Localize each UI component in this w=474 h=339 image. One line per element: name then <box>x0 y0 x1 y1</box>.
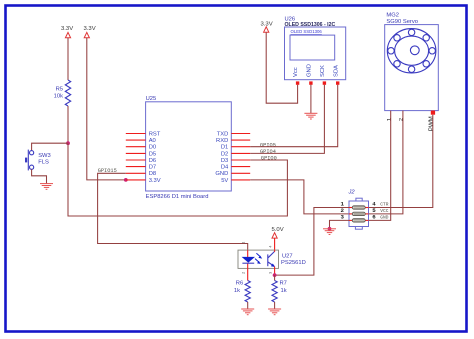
svg-text:SG90 Servo: SG90 Servo <box>386 19 418 25</box>
node junction opto emitter / R7 / J2 pin1 <box>273 273 277 277</box>
svg-text:GPIO15: GPIO15 <box>98 168 117 174</box>
servo MG2 SG90 <box>385 12 439 131</box>
svg-text:3: 3 <box>341 214 345 221</box>
svg-text:PWM: PWM <box>428 116 435 131</box>
svg-text:D5: D5 <box>149 151 156 157</box>
U25 left pin stubs RST A0 D0 D5 D6 D7 D8 3.3V <box>126 134 146 180</box>
svg-text:D6: D6 <box>149 158 156 164</box>
power symbol 3.3V (OLED) <box>261 21 273 32</box>
resistor R5 <box>54 80 71 106</box>
wire net GPIO5 D1 to OLED SDA <box>250 85 338 147</box>
ground (R6) <box>241 309 254 315</box>
svg-text:RST: RST <box>149 131 161 137</box>
svg-text:U25: U25 <box>146 96 157 102</box>
svg-text:1: 1 <box>385 117 392 121</box>
wire R7 to ground <box>274 302 276 309</box>
svg-text:1: 1 <box>242 242 246 244</box>
svg-text:1k: 1k <box>234 288 240 294</box>
node junction 3.3V pin <box>124 178 128 182</box>
svg-text:MG2: MG2 <box>386 12 399 18</box>
svg-text:3.3V: 3.3V <box>61 26 73 32</box>
wire R5 to junction <box>67 106 69 143</box>
svg-text:Vcc: Vcc <box>293 67 299 77</box>
svg-text:3: 3 <box>268 272 272 274</box>
wire net GPIO0 SW3 junction to U25 D3 <box>68 143 287 216</box>
svg-text:SDA: SDA <box>333 65 339 77</box>
wire servo PWM to J2 CTR row <box>369 115 433 208</box>
svg-text:A0: A0 <box>149 138 156 144</box>
svg-text:GPIO4: GPIO4 <box>260 149 276 155</box>
svg-text:5V: 5V <box>221 178 228 184</box>
wire net 5V U25 to J2 pin 2 <box>250 180 349 214</box>
svg-text:D1: D1 <box>221 145 228 151</box>
svg-text:R5: R5 <box>56 86 63 92</box>
svg-text:2: 2 <box>242 272 246 274</box>
wire opto cathode to R6 <box>247 268 249 280</box>
svg-text:D4: D4 <box>221 165 229 171</box>
svg-text:SW3: SW3 <box>38 153 51 159</box>
svg-text:1k: 1k <box>281 288 287 294</box>
svg-text:RXD: RXD <box>216 138 228 144</box>
svg-text:D3: D3 <box>221 158 228 164</box>
svg-text:5.0V: 5.0V <box>272 227 284 233</box>
svg-text:GND: GND <box>307 64 313 77</box>
node junction R5/SW3/GPIO0 <box>66 141 70 145</box>
svg-text:R6: R6 <box>236 281 243 287</box>
svg-text:CTR: CTR <box>380 201 388 207</box>
wire SW3 to ground <box>32 169 47 183</box>
ground (SW3) <box>40 184 53 190</box>
U25 right pin stubs TXD RXD D1 D2 D3 D4 GND 5V <box>231 134 250 180</box>
wire servo pin1 to J2 GND row <box>369 111 391 221</box>
wire junction to SW3 <box>32 143 68 150</box>
wire J2 pin1 to opto emitter <box>275 208 349 276</box>
svg-text:FLS: FLS <box>38 160 49 166</box>
svg-text:10k: 10k <box>54 94 63 100</box>
svg-text:3.3V: 3.3V <box>149 178 161 184</box>
wire 3.3V to R5 <box>67 38 69 80</box>
svg-text:4: 4 <box>268 246 272 248</box>
wire R7 top from emitter junction <box>274 275 276 280</box>
svg-text:GND: GND <box>380 214 388 220</box>
wire OLED GND to ground <box>310 85 312 114</box>
ground (J2 pin3) <box>323 229 336 235</box>
wire 3.3V to OLED Vcc <box>266 32 297 103</box>
connector J2 <box>341 190 389 230</box>
IC U25 ESP8266 D1 mini Board <box>146 96 232 200</box>
svg-text:ESP8266 D1 mini Board: ESP8266 D1 mini Board <box>146 194 209 200</box>
wire net GPIO4 D2 to OLED SCK <box>250 85 324 154</box>
svg-text:D7: D7 <box>149 165 156 171</box>
power symbol 5.0V (opto collector) <box>272 227 284 238</box>
wire net GPIO15 D8 to opto anode <box>98 173 248 250</box>
wire servo pin2 to J2 VCC row <box>369 111 403 214</box>
wire 3.3V rail to U25 3.3V pin <box>87 38 126 180</box>
resistor R6 <box>234 281 250 303</box>
svg-text:GPIO5: GPIO5 <box>260 143 276 149</box>
svg-text:R7: R7 <box>280 281 287 287</box>
svg-text:U27: U27 <box>282 253 293 259</box>
switch SW3 FLS <box>25 150 51 171</box>
svg-text:SCK: SCK <box>320 65 326 77</box>
svg-text:6: 6 <box>372 214 376 221</box>
wire 5.0V to opto collector pin 4 <box>274 238 276 250</box>
ground (R7) <box>268 309 281 315</box>
wire R6 to ground <box>247 302 249 309</box>
wire J2 pin3 to ground <box>330 220 350 228</box>
svg-text:GPIO0: GPIO0 <box>261 155 277 161</box>
svg-text:J2: J2 <box>348 190 356 196</box>
ground (OLED) <box>304 113 317 119</box>
svg-text:2: 2 <box>398 117 405 121</box>
power symbol 3.3V (rail 2 to U25) <box>84 26 96 38</box>
node junction J2 ground <box>328 227 332 231</box>
svg-text:VCC: VCC <box>380 208 388 214</box>
svg-text:D0: D0 <box>149 145 156 151</box>
svg-text:PS2561D: PS2561D <box>281 260 306 266</box>
svg-text:GND: GND <box>215 171 228 177</box>
svg-text:OLED SSD1306: OLED SSD1306 <box>291 29 323 34</box>
svg-text:D8: D8 <box>149 171 156 177</box>
svg-text:3.3V: 3.3V <box>84 26 96 32</box>
opto-coupler U27 PS2561D <box>238 242 306 275</box>
IC U26 OLED SSD1306 - I2C <box>285 16 346 85</box>
power symbol 3.3V (left rail 1) <box>61 26 73 38</box>
resistor R7 <box>272 281 287 303</box>
svg-text:TXD: TXD <box>217 131 229 137</box>
svg-text:D2: D2 <box>221 151 228 157</box>
